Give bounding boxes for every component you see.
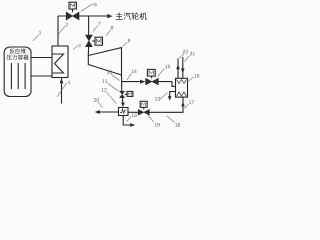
leader 21 (184, 56, 189, 61)
leader 19 (148, 115, 154, 122)
turbine 9 trapezoid (88, 48, 121, 75)
riser up arrowhead (181, 102, 185, 107)
label 16 (194, 74, 199, 78)
vessel internals tube 2 (17, 63, 19, 89)
valve V11 actuator glyph (128, 93, 132, 96)
valve V6 actuator glyph (71, 4, 75, 8)
leader 13 heater drain (160, 93, 168, 100)
label 2 (66, 23, 68, 26)
valve V15 actuator box (147, 69, 155, 76)
valve V7 actuator glyph (97, 39, 102, 44)
leader 10 (112, 75, 120, 81)
label 7 (98, 22, 100, 25)
branch pipe to aux turbine (88, 16, 90, 35)
vessel caption line 2 压力容器 (7, 55, 29, 60)
steam generator box (52, 46, 68, 78)
label 14 (132, 70, 137, 73)
main steam arrowhead (107, 14, 112, 19)
leader 2 (59, 26, 66, 34)
heater upper zigzag (177, 80, 187, 84)
pipe condenser to valve V19 (128, 111, 138, 113)
valve V19 stem (143, 107, 145, 109)
leader 22 (179, 54, 184, 59)
heater top line in (182, 57, 184, 78)
heater drain arrowhead (168, 96, 172, 101)
label 9 (128, 39, 130, 43)
leader 18 (167, 116, 175, 123)
label 18 (175, 123, 180, 127)
pipe valve V11 to condenser (121, 98, 124, 104)
heater lower zigzag (177, 92, 187, 96)
valve V7 actuator box (95, 37, 103, 45)
valve V19 bowtie (138, 109, 149, 115)
valve V11 vertical bowtie (120, 91, 125, 97)
steam generator coil zigzag (53, 54, 64, 73)
main turbine caption 主汽轮机 (116, 12, 147, 19)
label 1 (39, 31, 41, 34)
label 19 (155, 123, 160, 127)
leader 12 (106, 92, 116, 104)
label 10 (107, 71, 112, 75)
leader 17 (184, 104, 188, 109)
heater top in arrowhead down (181, 68, 185, 73)
leader 20 (98, 102, 103, 107)
label 15 (165, 65, 170, 68)
feedwater line into SG (61, 78, 63, 104)
valve V7 stem (92, 40, 95, 42)
leader 9 (122, 42, 127, 46)
leader 13 condenser drain (127, 117, 131, 122)
leader 6 (81, 4, 93, 12)
label 21 (190, 52, 195, 55)
label 4 (68, 81, 71, 84)
label 3 (78, 44, 80, 48)
condenser zigzag (120, 109, 126, 113)
extraction branch pipe (122, 81, 140, 83)
extraction flow arrowhead (140, 80, 145, 84)
leader 7 (93, 26, 98, 32)
vessel internals tube 3 (24, 63, 26, 89)
heater drain pipe (170, 92, 176, 97)
label 17 (189, 100, 194, 103)
leader 3 (73, 46, 78, 50)
label 13 (132, 114, 137, 118)
valve V19 actuator box (140, 101, 147, 107)
valve V6 bowtie (66, 12, 79, 20)
pipe vessel to SG hot leg (31, 57, 52, 59)
condensate outflow arrowhead (95, 110, 100, 114)
vessel caption line 1 反应堆 (10, 48, 26, 53)
label 22 (183, 50, 188, 53)
heater top out arrowhead up (176, 64, 180, 69)
valve V15 bowtie (146, 78, 159, 84)
bottom return pipe (149, 97, 183, 112)
condenser box 12 (119, 108, 129, 116)
valve V19 actuator glyph (142, 103, 146, 106)
valve V6 actuator box (69, 2, 76, 9)
reactor pressure vessel (4, 47, 31, 97)
label 11 (103, 79, 108, 82)
condenser drain arrowhead (130, 123, 135, 127)
valve V11 stem (125, 93, 127, 95)
valve V6 stem (72, 9, 74, 12)
label 12 (102, 88, 107, 91)
condenser drain pipe down (123, 116, 131, 126)
leader lines (33, 4, 194, 123)
pipe valve V15 to heater (158, 82, 175, 87)
heater top line out (177, 59, 179, 79)
condensate outflow pipe left (99, 111, 119, 113)
leader 4 (57, 83, 66, 97)
leader 1 (33, 35, 39, 41)
label 20 (94, 98, 99, 102)
turbine exhaust pipe (121, 75, 123, 91)
feedwater arrowhead (60, 78, 64, 83)
leader 8 (106, 30, 111, 36)
valve V7 vertical bowtie (86, 35, 93, 47)
valve V11 actuator box (127, 91, 133, 96)
leader 14 (127, 74, 132, 80)
label 8 (111, 26, 113, 30)
pipe vessel to SG cold leg (31, 75, 52, 77)
leader 11 (108, 83, 119, 91)
condenser inlet arrowhead (121, 103, 125, 108)
leader 16 (189, 77, 194, 82)
pipe valve V7 to turbine (87, 47, 89, 56)
leader 15 (158, 69, 164, 77)
label 6 (94, 3, 96, 7)
vessel internals tube 1 (10, 63, 12, 89)
label 13 (155, 97, 160, 101)
valve V15 stem (151, 76, 153, 78)
valve V15 actuator glyph (149, 71, 154, 75)
main steam pipe (58, 15, 108, 17)
main steam riser (57, 16, 59, 46)
feedwater heater 16 box (176, 78, 188, 97)
